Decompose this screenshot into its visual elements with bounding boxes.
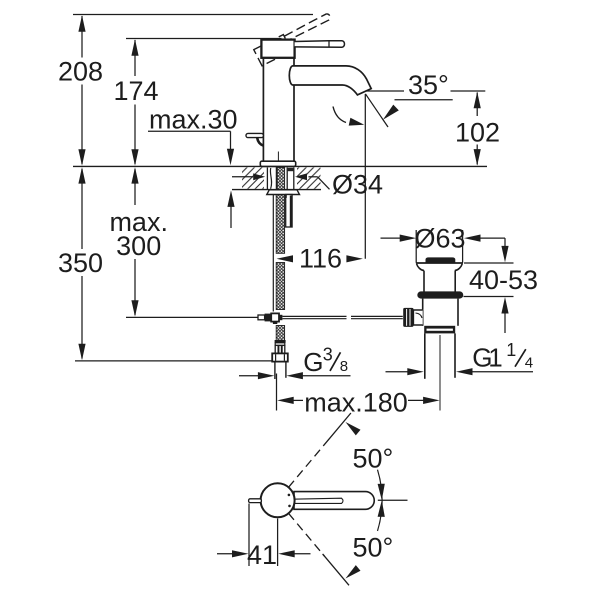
top view centerline right <box>378 499 408 501</box>
svg-text:300: 300 <box>116 231 161 261</box>
pull rod tube left <box>272 195 274 312</box>
svg-text:40-53: 40-53 <box>469 265 538 295</box>
svg-text:350: 350 <box>58 248 103 278</box>
horizontal rod right top <box>351 315 403 317</box>
svg-text:8: 8 <box>340 358 348 375</box>
dimension 208 (x=82) <box>78 15 85 166</box>
svg-text:35°: 35° <box>408 70 449 100</box>
spout <box>289 66 371 95</box>
dia63 ext left <box>415 230 417 263</box>
svg-text:102: 102 <box>455 117 500 147</box>
svg-text:max.180: max.180 <box>304 388 408 418</box>
upper 50deg arc <box>378 470 383 501</box>
svg-text:174: 174 <box>113 76 158 106</box>
faucet body right edge upper <box>293 58 295 66</box>
dimension dia63 <box>381 235 506 242</box>
shank through countertop <box>267 168 293 190</box>
dimension max.180 <box>277 397 439 404</box>
G3/8 pipe left wall <box>274 362 276 379</box>
dimension 102 (x=477) <box>474 92 481 166</box>
horizontal rod top <box>283 315 347 317</box>
ext line lever top (174 ref) <box>126 38 282 40</box>
svg-text:4: 4 <box>525 355 533 372</box>
upper arc 50deg arrow <box>328 413 360 440</box>
dimension 350 (x=82) <box>78 167 85 360</box>
dash dot on circle upper <box>288 494 291 497</box>
countertop hatching <box>242 167 321 188</box>
lever blade separator <box>328 41 330 47</box>
max180 ext left <box>276 374 278 411</box>
handle slot detail <box>292 498 343 503</box>
dimension 116 <box>277 255 363 262</box>
top view rear tab <box>249 499 262 503</box>
max.300 bottom ref line (pop-up rod) <box>126 316 259 318</box>
hose end connector <box>272 340 288 362</box>
dia63 ext right <box>462 230 464 263</box>
top view dashed swivel lines <box>289 437 331 556</box>
water stream 35deg line <box>365 94 388 127</box>
dimension 174 (x=135) <box>131 39 138 166</box>
svg-text:G: G <box>303 347 323 377</box>
faucet lever handle <box>295 41 345 48</box>
right connector tube <box>285 195 293 228</box>
svg-text:Ø63: Ø63 <box>414 224 465 254</box>
top view handle <box>294 492 374 510</box>
svg-text:50°: 50° <box>353 533 394 563</box>
horizontal rod right bottom <box>351 318 403 320</box>
ext line from spout tip down <box>364 94 366 259</box>
35deg horizontal ref left part <box>366 90 405 92</box>
dimension G3/8 <box>239 372 351 379</box>
tailpipe centerline / max180 ext <box>439 335 441 411</box>
countertop bottom line <box>232 189 321 191</box>
mounting nut <box>267 190 300 195</box>
svg-text:3: 3 <box>323 344 333 364</box>
braided flex hose <box>276 168 284 343</box>
dash dot on circle lower <box>288 505 291 508</box>
upper arc arrow at 0deg <box>378 484 385 501</box>
svg-text:50°: 50° <box>353 444 394 474</box>
drain pop-up waste <box>403 257 463 378</box>
ext line top of raised lever (208 ref) <box>73 14 313 16</box>
label G1 1/4 <box>472 340 533 373</box>
svg-text:116: 116 <box>299 244 342 274</box>
svg-text:41: 41 <box>247 540 277 570</box>
base plate <box>260 161 295 166</box>
350 bottom ref line (hose end) <box>75 360 284 362</box>
pop-up rod knob <box>246 133 263 145</box>
dashed raised lever outline <box>254 12 336 66</box>
pop-up rod clamp <box>258 313 282 324</box>
svg-text:1: 1 <box>506 340 516 360</box>
dimension 40-53 <box>464 238 514 333</box>
dimension 41 <box>217 504 311 567</box>
G3/8 pipe right wall <box>285 362 287 378</box>
lower 50deg arc <box>378 500 383 531</box>
svg-text:max.30: max.30 <box>149 105 238 135</box>
lower arc 50deg arrow <box>323 554 361 585</box>
faucet cartridge cap <box>261 40 294 58</box>
svg-text:1: 1 <box>488 343 502 373</box>
lower arc arrow at 0deg <box>378 500 385 517</box>
flow curve arrow <box>333 107 346 123</box>
dimension G1 1/4 <box>386 368 534 375</box>
faucet body left edge <box>262 58 264 161</box>
35deg horizontal ref right part <box>451 90 486 92</box>
35deg leader arrow <box>383 100 453 120</box>
horizontal rod bottom <box>283 318 347 320</box>
faucet body right edge lower <box>293 85 295 161</box>
dimension dia34 <box>232 173 330 189</box>
countertop top line <box>73 165 487 167</box>
faucet body top view <box>261 483 295 517</box>
svg-text:208: 208 <box>58 57 103 87</box>
dimension max.30 leader <box>148 131 235 228</box>
svg-text:Ø34: Ø34 <box>332 170 383 200</box>
label G3/8 <box>303 344 348 377</box>
dimension max.300 (x=135) <box>131 167 138 317</box>
faucet centerline <box>277 152 279 164</box>
